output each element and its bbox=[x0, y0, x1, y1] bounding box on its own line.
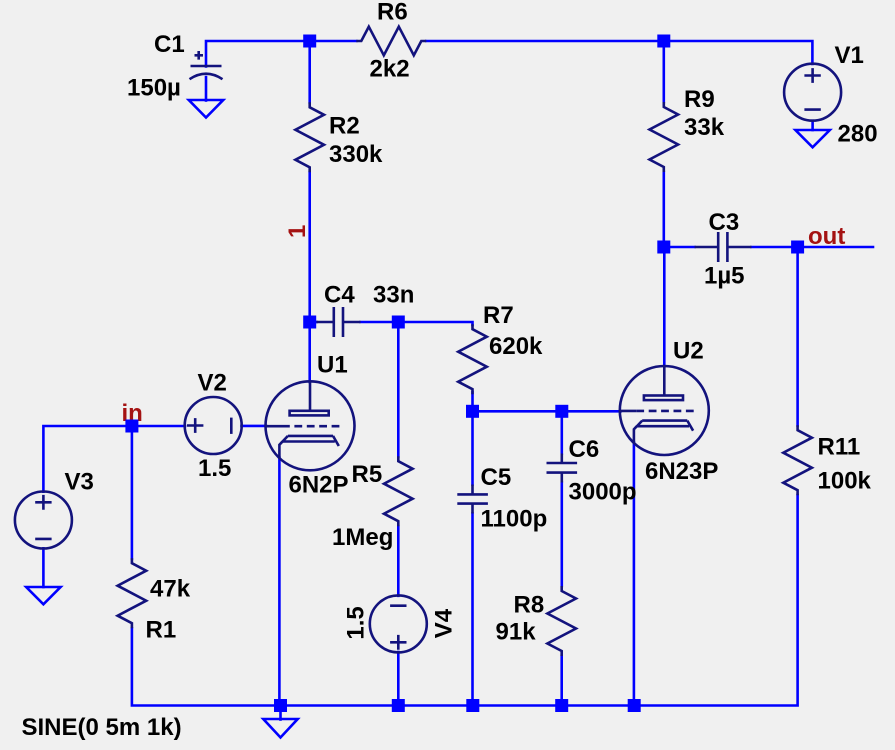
ground bottom rail bbox=[263, 719, 297, 738]
wire U2 cathode drop bbox=[633, 443, 636, 706]
svg-text:V2: V2 bbox=[198, 370, 227, 397]
resistor R1 bbox=[118, 558, 191, 643]
wire top rail right with V1 drop bbox=[426, 41, 812, 64]
junction C3 left bbox=[657, 241, 670, 254]
svg-text:6N23P: 6N23P bbox=[645, 458, 718, 485]
svg-text:R7: R7 bbox=[483, 302, 514, 329]
svg-text:R1: R1 bbox=[146, 617, 177, 644]
ground under C1 bbox=[189, 100, 223, 118]
wire C5 top bbox=[471, 411, 474, 484]
resistor R6 bbox=[356, 0, 426, 83]
svg-text:C4: C4 bbox=[324, 282, 355, 309]
svg-text:C1: C1 bbox=[154, 31, 185, 58]
svg-text:C6: C6 bbox=[569, 436, 600, 463]
wire node row to U2 grid bbox=[473, 410, 621, 413]
svg-text:1.5: 1.5 bbox=[198, 455, 231, 482]
wire C4 node to R7 corner bbox=[398, 322, 472, 325]
wire R9 top bbox=[662, 41, 665, 102]
svg-text:1.5: 1.5 bbox=[343, 606, 370, 639]
svg-text:1: 1 bbox=[284, 225, 311, 238]
wire C4 right bbox=[361, 321, 399, 324]
wire C1 bottom lead bbox=[205, 77, 208, 101]
svg-text:33k: 33k bbox=[684, 114, 725, 141]
svg-text:3000p: 3000p bbox=[569, 479, 637, 506]
wire top rail left with C1 lead bbox=[206, 41, 356, 67]
resistor R5 bbox=[332, 456, 413, 551]
svg-text:V1: V1 bbox=[835, 42, 864, 69]
wire U1 plate drop bbox=[308, 322, 311, 382]
svg-text:6N2P: 6N2P bbox=[289, 472, 349, 499]
capacitor C1 bbox=[127, 31, 223, 102]
wire C5 bottom bbox=[471, 514, 474, 706]
junction C6 row bbox=[555, 405, 568, 418]
svg-text:100k: 100k bbox=[818, 468, 872, 495]
svg-text:620k: 620k bbox=[489, 333, 543, 360]
svg-text:R11: R11 bbox=[818, 434, 861, 461]
svg-text:R9: R9 bbox=[684, 86, 715, 113]
junction in bbox=[125, 420, 138, 433]
svg-text:1100p: 1100p bbox=[481, 506, 548, 533]
wire R9 bottom bbox=[662, 172, 665, 247]
wire R5 to V4 bbox=[397, 526, 400, 595]
ground under V1 bbox=[795, 130, 829, 147]
wire R11 top bbox=[796, 247, 799, 426]
junction top rail R2 bbox=[303, 35, 316, 48]
wire R2 bottom to node 1 and C4 bbox=[308, 172, 311, 322]
voltage source V3 bbox=[15, 469, 94, 549]
wire V3 ground lead bbox=[42, 548, 45, 587]
wire V4 bottom bbox=[397, 652, 400, 706]
svg-text:C5: C5 bbox=[481, 464, 512, 491]
ground under V3 bbox=[26, 587, 60, 604]
resistor R7 bbox=[458, 302, 543, 394]
svg-text:R5: R5 bbox=[352, 461, 383, 488]
wire R7 bottom bbox=[471, 392, 474, 411]
triode U1 bbox=[266, 352, 355, 499]
capacitor C5 bbox=[457, 464, 547, 533]
svg-text:SINE(0 5m 1k): SINE(0 5m 1k) bbox=[22, 714, 182, 741]
svg-text:U1: U1 bbox=[317, 352, 348, 379]
junction bottom U2 cathode bbox=[628, 699, 641, 712]
resistor R9 bbox=[650, 86, 725, 172]
junction bottom R8 bbox=[555, 699, 568, 712]
junction C4 right R5 bbox=[392, 316, 405, 329]
wire V1 ground lead bbox=[811, 121, 814, 130]
svg-text:330k: 330k bbox=[329, 141, 383, 168]
capacitor C6 bbox=[547, 436, 637, 506]
svg-text:R2: R2 bbox=[329, 113, 360, 140]
wire C4 left bbox=[310, 321, 317, 324]
svg-text:1Meg: 1Meg bbox=[332, 524, 393, 551]
svg-text:out: out bbox=[808, 223, 845, 250]
svg-text:R6: R6 bbox=[377, 0, 408, 26]
svg-text:R8: R8 bbox=[514, 592, 545, 619]
voltage source V2 bbox=[185, 370, 242, 482]
svg-text:2k2: 2k2 bbox=[370, 56, 410, 83]
voltage source V1 bbox=[784, 42, 877, 148]
junction R7 C5 bbox=[466, 405, 479, 418]
junction top rail R9 bbox=[657, 35, 670, 48]
wire R5 top bbox=[397, 322, 400, 456]
svg-text:91k: 91k bbox=[496, 619, 537, 646]
wire C6 to R8 bbox=[560, 483, 563, 587]
svg-text:150µ: 150µ bbox=[127, 75, 181, 102]
wire R2 top bbox=[308, 41, 311, 103]
wire R1 top bbox=[131, 426, 134, 558]
junction out bbox=[791, 241, 804, 254]
wire C6 top bbox=[560, 411, 563, 453]
wire R8 bottom bbox=[560, 656, 563, 706]
wire C3 right to out stub bbox=[752, 246, 874, 249]
wire U1 cathode drop bbox=[278, 458, 281, 706]
capacitor C3 bbox=[695, 209, 752, 290]
voltage source V4 bbox=[343, 595, 458, 652]
svg-text:33n: 33n bbox=[373, 282, 414, 309]
svg-text:C3: C3 bbox=[709, 209, 740, 236]
junction bottom V4 bbox=[392, 699, 405, 712]
wire bottom rail with R1 and R11 legs bbox=[132, 495, 798, 706]
resistor R8 bbox=[496, 586, 577, 656]
wire V2 to U1 grid bbox=[242, 425, 267, 428]
wire U2 plate drop bbox=[663, 247, 666, 366]
junction bottom U1 cathode bbox=[274, 699, 287, 712]
wire C3 left bbox=[664, 246, 695, 249]
capacitor C4 bbox=[317, 282, 415, 338]
svg-text:1µ5: 1µ5 bbox=[704, 263, 745, 290]
wire bottom ground lead bbox=[279, 706, 282, 720]
svg-text:280: 280 bbox=[838, 121, 878, 148]
svg-text:U2: U2 bbox=[673, 338, 704, 365]
svg-text:V4: V4 bbox=[431, 608, 458, 638]
svg-text:V3: V3 bbox=[65, 469, 94, 496]
wire V3 to node in to V2 bbox=[43, 426, 185, 492]
triode U2 bbox=[620, 338, 719, 486]
svg-text:47k: 47k bbox=[150, 576, 191, 603]
resistor R2 bbox=[295, 102, 383, 172]
junction bottom C5 bbox=[466, 699, 479, 712]
resistor R11 bbox=[783, 425, 871, 495]
junction node 1 C4 left bbox=[303, 316, 316, 329]
